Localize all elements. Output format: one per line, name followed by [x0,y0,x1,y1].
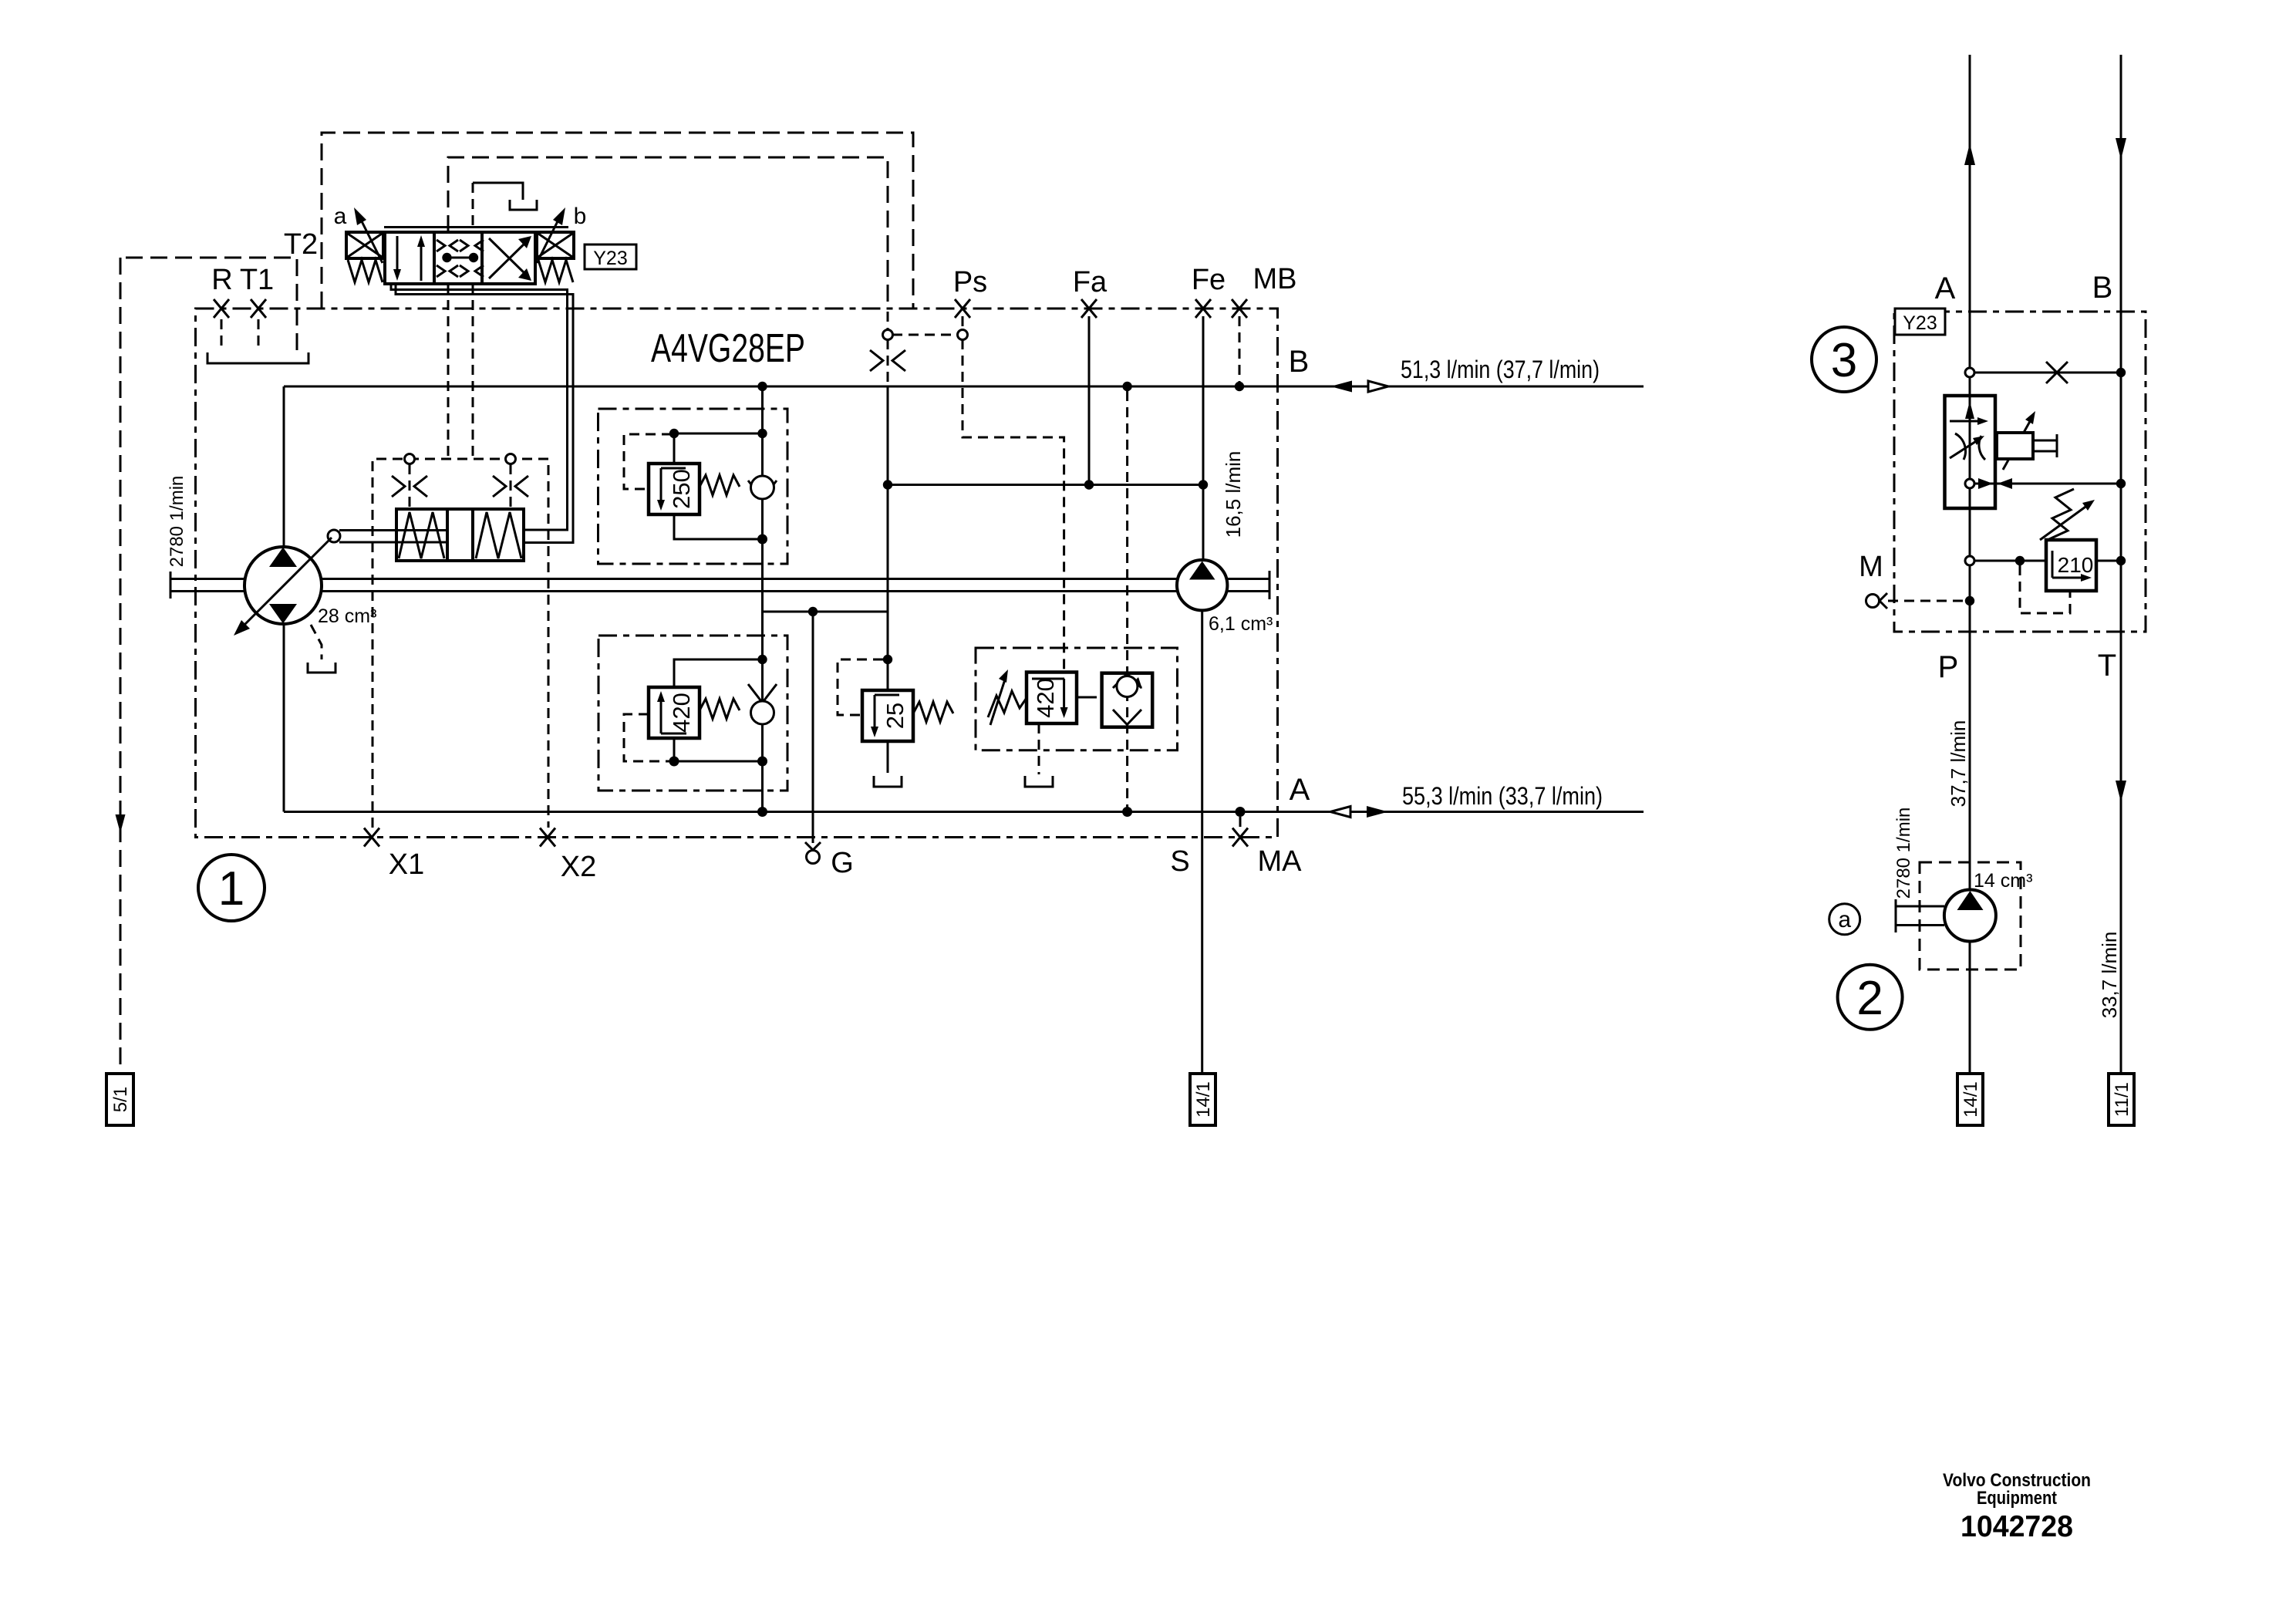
piston rod double line [339,531,447,543]
wire compensator line [1974,483,2121,485]
spring 250 [700,475,740,495]
svg-text:MA: MA [1258,845,1303,878]
port X closed [2046,362,2068,383]
wire inner control dashed box [448,157,888,309]
wire T1 stub [258,319,260,349]
port T1 [251,299,266,318]
wire check line B-A dashed [1126,391,1128,672]
svg-text:Ps: Ps [953,266,987,298]
reference tag 5/1 [106,1074,133,1125]
wire 250 top link [674,433,763,464]
svg-text:a: a [334,204,347,229]
wire 25 supply [883,655,892,664]
svg-text:11/1: 11/1 [2112,1082,2132,1117]
wire Fa line [1088,316,1091,485]
svg-text:14/1: 14/1 [1961,1081,1981,1118]
orifice right [493,476,528,497]
flow control valve body [1945,396,1996,508]
wire 25 tank [887,741,889,773]
port Ps [955,299,970,318]
adjust arrow [2003,417,2032,470]
svg-text:6,1 cm³: 6,1 cm³ [1209,613,1273,635]
wire 420 top link [674,659,763,687]
svg-text:25: 25 [882,703,909,729]
port M symbol [1866,595,1880,608]
svg-text:A4VG28EP: A4VG28EP [651,326,805,371]
svg-text:G: G [831,847,854,879]
Y23 tag block3 [1895,309,1945,335]
port G symbol [805,842,821,850]
component circle 3 [1812,327,1876,392]
T2 tank symbol [510,200,537,210]
port MB [1232,299,1247,318]
node orifice pin right [506,454,516,464]
pump main circle [244,547,322,624]
spring 210 adjustable [2049,489,2074,539]
valve feedback double line inner [391,284,568,530]
svg-text:S: S [1170,845,1189,878]
svg-text:51,3 l/min (37,7 l/min): 51,3 l/min (37,7 l/min) [1401,356,1600,383]
wire cutoff tank stub [1038,723,1040,774]
relief valve 420 body [649,687,700,738]
wire 420 pilot dashed [624,714,672,761]
svg-text:2780 1/min: 2780 1/min [1893,808,1914,899]
cylinder spring right [476,512,521,558]
svg-text:1: 1 [218,862,244,916]
orifice Ps [870,350,905,371]
wire Ps cross link [892,334,957,336]
tank symbol cutoff [1025,776,1053,787]
svg-text:b: b [574,204,587,229]
node R/T1 bracket [207,352,308,363]
svg-text:2: 2 [1856,972,1883,1025]
shaft right end [1227,579,1269,592]
node B down arrow [2116,138,2126,160]
wire R/T1 dashed enclosure [120,258,297,350]
svg-text:MB: MB [1253,263,1297,295]
wire inner rect left edge through pump [283,386,285,812]
wire Fe line [1202,316,1205,561]
solenoid b [537,232,574,258]
svg-text:37,7 l/min: 37,7 l/min [1947,720,1970,808]
tank symbol 25 [874,776,902,787]
block 3 chain border [1894,312,2146,632]
control cylinder body [396,509,524,561]
wire MB stub [1239,316,1241,383]
wire Fa-Fe cross line [888,484,1203,486]
port a circle [1829,904,1860,935]
svg-text:T1: T1 [240,264,274,296]
node B flow arrows [1330,381,1352,393]
wire A-B closed link [1970,372,2121,374]
svg-text:X2: X2 [561,851,596,883]
wire B line [284,386,1644,388]
check valve symbol [1113,674,1141,689]
wire pump to B [283,386,285,547]
svg-text:X1: X1 [389,848,424,881]
wire 250 pilot dashed [624,434,672,489]
svg-text:5/1: 5/1 [110,1087,131,1112]
check valve box [1102,673,1153,727]
relief valve 210 [2046,540,2096,591]
component circle 2 [1838,965,1903,1030]
valve rail line [384,226,568,228]
spring 25 [913,702,953,722]
node arrow down on 5/1 line [116,814,126,833]
wire outer control dashed box [322,133,913,309]
port X1 [364,828,379,847]
port Fa [1081,299,1097,318]
svg-text:16,5 l/min: 16,5 l/min [1222,451,1245,538]
wire A line [284,811,1644,813]
node orifice pin left [405,454,415,464]
cylinder spring left [399,512,444,558]
svg-text:Fe: Fe [1192,264,1226,296]
valve feedback double line outer [396,284,573,543]
shaft left [170,579,245,592]
wire 210 pilot dashed [2020,565,2070,613]
wire 25 pilot dashed [838,659,883,715]
wire check line B to A [761,386,764,812]
cutoff spring adjustable [988,691,1027,717]
solenoid block3 [1997,433,2033,459]
port X2 [540,828,555,847]
wire R stub [221,319,223,349]
svg-text:420: 420 [1032,678,1059,718]
pump 2 dashed box [1920,862,2021,969]
spring b [538,260,573,282]
svg-text:28 cm³: 28 cm³ [318,605,376,627]
spring a [348,260,383,282]
pump 2 triangle [1957,891,1984,910]
cutoff chain enclosure [976,648,1178,750]
svg-text:P: P [1938,650,1959,684]
pump case drain leader [311,625,322,659]
reference tag 14/1 block1 [1190,1074,1215,1125]
flow control internals [1969,396,1971,508]
port M line [1888,600,1965,602]
wire MA stub [1236,807,1246,817]
svg-text:2780 1/min: 2780 1/min [167,476,187,568]
node A up arrow [1964,143,1975,165]
wire sense line x1151 dashed upper [887,312,889,385]
reference tag 14/1 pump2 [1957,1074,1983,1125]
displacement arrow [243,538,332,626]
valve cell1 arrows [397,236,421,281]
wire X1/X2 dashed channel [373,459,548,828]
port MA [1232,828,1248,847]
reference tag 11/1 [2109,1074,2134,1125]
block 1 chain border [196,309,1278,838]
wire B/T line [2120,55,2122,1074]
svg-text:55,3 l/min (33,7 l/min): 55,3 l/min (33,7 l/min) [1402,782,1603,810]
svg-text:Y23: Y23 [1903,312,1937,334]
check valve 420 [748,684,777,703]
lever pivot [328,530,340,542]
svg-text:T: T [2098,649,2116,683]
svg-text:B: B [2092,271,2113,305]
pump 2 circle [1944,890,1996,942]
svg-text:Fa: Fa [1073,266,1108,298]
svg-text:250: 250 [668,469,695,509]
svg-text:A: A [1935,271,1956,305]
svg-text:T2: T2 [284,228,318,261]
svg-text:14/1: 14/1 [1193,1081,1214,1118]
valve 4/3 proportional body [385,232,535,284]
svg-text:A: A [1290,773,1310,807]
valve center cell chevrons and pilot dots [437,240,484,277]
pump drain tank symbol [308,663,335,673]
node T down arrow [2116,781,2126,802]
charge pump triangle [1189,561,1215,580]
pump 2 shaft [1896,906,1944,926]
wire pump to A [283,624,285,812]
component circle 1 [198,855,265,921]
wire A/P line [1969,55,1971,1074]
wire cutoff to check [1077,696,1087,699]
wire orifice stubs [410,464,511,508]
wire relief 210 links [1970,560,2121,562]
pump triangle down [269,604,297,624]
wire case line to G [763,611,888,613]
spring 420 [700,699,740,719]
Y23 tag block1 [585,244,636,269]
svg-text:1042728: 1042728 [1961,1510,2073,1543]
wire Ps stub [962,316,964,329]
relief 250 chain enclosure [598,409,788,564]
svg-text:R: R [211,264,232,296]
junction dots 250 [757,382,767,391]
shaft middle [321,578,1177,580]
pump triangle up [269,548,297,568]
wire sense line x1151 solid [887,386,889,690]
wire Ps line down [963,339,1064,670]
charge pump circle [1177,560,1227,610]
svg-text:Y23: Y23 [593,248,627,269]
svg-text:33,7 l/min: 33,7 l/min [2098,932,2121,1019]
svg-text:14 cm³: 14 cm³ [1974,870,2032,892]
cylinder piston [447,509,473,561]
orifice left [392,476,427,497]
valve cell3 crossed arrows [489,238,528,278]
valve T2 drain line [472,183,474,231]
relief valve 25 body [862,690,913,741]
node A flow arrows [1330,807,1350,818]
node compensator pin [1965,479,1974,488]
valve pilot lines down [447,284,450,459]
junction dots 420 [757,655,767,664]
node pin Ps [958,330,968,340]
junction dots cross line [883,480,892,489]
wire S line [1201,609,1203,1074]
relief 420 chain enclosure [598,636,787,791]
cutoff valve body [1027,673,1077,724]
relief valve 250 body [649,464,700,514]
port R [214,299,229,318]
svg-text:a: a [1838,907,1851,932]
svg-text:3: 3 [1831,334,1857,387]
svg-text:B: B [1289,345,1310,379]
solenoid a [346,232,383,258]
port Fe [1195,299,1211,318]
node pin left [883,330,893,340]
svg-text:Equipment: Equipment [1977,1488,2057,1509]
wire drain line to 5/1 [120,258,122,1074]
check valve 250 [748,481,777,499]
svg-text:M: M [1859,551,1883,583]
svg-text:420: 420 [668,693,695,733]
wire 420 bottom link [674,738,763,761]
svg-text:210: 210 [2058,553,2094,577]
wire 250 bottom link [674,514,763,539]
